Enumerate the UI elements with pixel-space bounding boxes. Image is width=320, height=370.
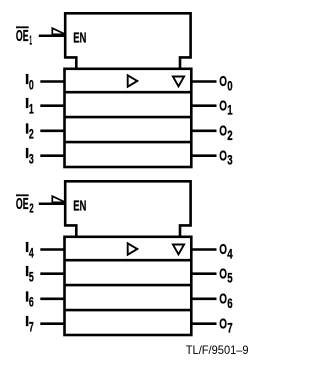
svg-text:6: 6 [227,295,233,311]
svg-text:O: O [219,147,227,164]
svg-text:0: 0 [227,78,233,94]
svg-text:4: 4 [227,246,233,262]
svg-text:2: 2 [29,126,34,142]
svg-text:O: O [219,265,227,282]
svg-text:7: 7 [227,320,233,336]
svg-text:O: O [219,290,227,307]
svg-text:O: O [219,315,227,332]
svg-text:OE: OE [16,28,29,45]
svg-text:4: 4 [29,244,34,260]
svg-text:2: 2 [227,127,233,143]
svg-text:O: O [219,241,227,258]
svg-text:O: O [219,97,227,114]
svg-text:1: 1 [29,33,32,47]
svg-text:1: 1 [29,101,34,117]
svg-text:3: 3 [227,152,233,168]
svg-text:OE: OE [16,196,29,213]
svg-text:5: 5 [227,270,233,286]
svg-text:TL/F/9501–9: TL/F/9501–9 [186,343,249,357]
svg-text:EN: EN [73,29,86,46]
svg-text:2: 2 [29,201,33,215]
svg-text:5: 5 [29,269,34,285]
svg-text:O: O [219,122,227,139]
svg-text:7: 7 [29,319,34,335]
svg-text:3: 3 [29,151,34,167]
svg-text:1: 1 [227,102,233,118]
svg-text:EN: EN [73,197,86,214]
svg-text:O: O [219,73,227,90]
svg-text:6: 6 [29,294,34,310]
svg-text:0: 0 [29,76,34,92]
